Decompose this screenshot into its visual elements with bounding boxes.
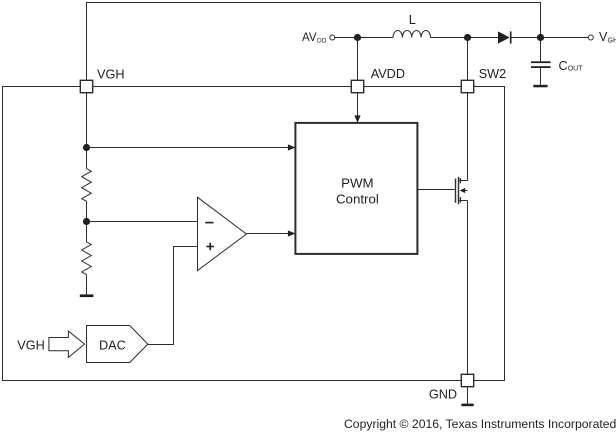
block arrow VGH input [49, 331, 85, 357]
wire comparator plus input from DAC [148, 247, 198, 345]
label VGH input [17, 338, 45, 352]
node AVDD junction [354, 34, 361, 41]
label COUT [559, 59, 584, 73]
svg-text:AV: AV [302, 32, 317, 44]
svg-text:PWM: PWM [341, 176, 374, 191]
svg-text:VGH: VGH [97, 68, 125, 82]
diode D1 [498, 31, 512, 43]
label SW2 pin [479, 67, 507, 81]
resistor R2 [82, 242, 92, 275]
wire feedback mid to comparator inverting input [87, 221, 198, 223]
wire PWM control to MOSFET gate [417, 189, 454, 191]
op-amp minus sign [205, 222, 213, 224]
ground under GND pin [461, 404, 473, 407]
PWM Control block [295, 123, 417, 254]
copyright notice [344, 417, 616, 431]
svg-text:SW2: SW2 [479, 67, 507, 81]
svg-text:GND: GND [429, 387, 457, 401]
wire top feedback loop VGH pin to output node [87, 3, 541, 81]
label VGH output terminal [599, 30, 616, 44]
wire R2 to ground [86, 275, 88, 295]
pin GND [461, 374, 473, 386]
wire AVDD pin to PWM control [354, 93, 360, 123]
svg-text:Copyright © 2016, Texas Instru: Copyright © 2016, Texas Instruments Inco… [344, 417, 616, 431]
wire feedback node to PWM control [87, 144, 296, 150]
pin SW2 [461, 80, 473, 92]
wire AVDD terminal to inductor [335, 37, 393, 39]
pin AVDD [351, 80, 363, 92]
label DAC [99, 338, 126, 352]
transistor Q1 body arrow [460, 188, 468, 193]
label GND pin [429, 387, 457, 401]
capacitor COUT [531, 61, 551, 68]
transistor Q1 channel bar [458, 177, 460, 204]
terminal VGH output [588, 35, 593, 40]
wire comparator output to PWM control [246, 230, 295, 236]
svg-text:VGH: VGH [17, 338, 45, 352]
wire diode to VGH output terminal [512, 37, 589, 39]
ground under divider [80, 294, 94, 297]
op-amp comparator U1 [198, 197, 247, 270]
label VGH pin [97, 68, 125, 82]
wire SW2 junction to SW2 pin [467, 38, 469, 81]
label AVDD terminal [302, 32, 327, 45]
ground under COUT [533, 85, 547, 88]
transistor Q1 gate bar [455, 179, 457, 203]
svg-text:OUT: OUT [568, 66, 584, 73]
DAC block [87, 326, 148, 363]
wire capacitor to ground [540, 68, 542, 85]
wire MOSFET drain to SW2 pin [467, 93, 469, 181]
transistor Q1 source stub [459, 197, 467, 202]
svg-text:AVDD: AVDD [371, 67, 405, 81]
label L [409, 13, 416, 27]
wire MOSFET source to GND pin [467, 201, 469, 375]
wire R1 to R2 [86, 201, 88, 242]
wire inductor to diode [431, 37, 499, 39]
svg-text:DAC: DAC [99, 338, 126, 352]
wire GND pin to ground [467, 387, 469, 404]
op-amp plus sign [206, 243, 214, 251]
label AVDD pin [371, 67, 405, 81]
pin VGH [80, 80, 92, 92]
node feedback top junction [83, 144, 90, 151]
svg-text:Control: Control [336, 191, 379, 206]
wire VGH pin to feedback divider [86, 93, 88, 169]
wire AVDD junction to AVDD pin [357, 38, 359, 81]
svg-text:DD: DD [317, 38, 327, 45]
label PWM Control [336, 176, 379, 207]
svg-text:C: C [559, 59, 568, 73]
terminal AVDD input [330, 35, 335, 40]
transistor Q1 drain stub [459, 178, 467, 183]
resistor R1 [82, 169, 92, 202]
svg-text:L: L [409, 13, 416, 27]
IC boundary box [3, 87, 505, 381]
inductor L [393, 30, 431, 37]
node SW2 junction [464, 34, 471, 41]
node feedback mid junction [83, 218, 90, 225]
wire output node to capacitor [540, 38, 542, 62]
svg-text:GH: GH [608, 37, 616, 44]
node VGH output junction [537, 34, 544, 41]
